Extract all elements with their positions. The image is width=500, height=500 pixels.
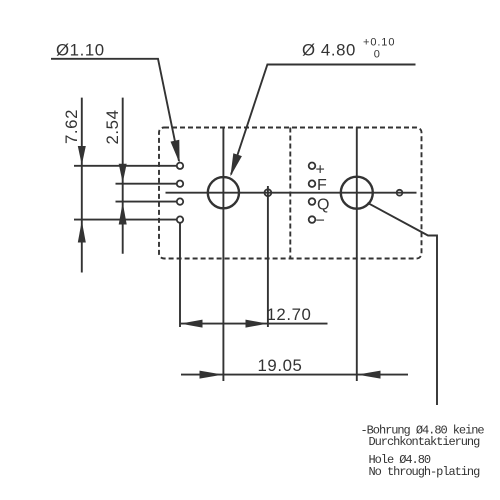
svg-text:F: F: [317, 177, 327, 194]
svg-text:19.05: 19.05: [258, 356, 303, 375]
pin hole 1 (1.10): [177, 163, 183, 169]
pin row line 1: [74, 165, 177, 167]
extension line from pin column: [179, 223, 181, 327]
pin hole 2 (1.10): [177, 181, 183, 187]
svg-text:Ø1.10: Ø1.10: [56, 40, 105, 59]
dimension line 12.70: [180, 323, 328, 325]
pin row line 3: [116, 201, 177, 203]
component body dashed outline: [159, 128, 422, 259]
dimension line 7.62 vertical: [81, 98, 83, 273]
right pin circle minus: [309, 216, 316, 223]
pin hole 4 (1.10): [177, 216, 183, 222]
horizontal centerline: [166, 192, 417, 194]
arrow up 7.62: [78, 221, 86, 243]
svg-text:Q: Q: [317, 197, 329, 214]
pin hole 3 (1.10): [177, 198, 183, 204]
arrow down 2.54: [119, 164, 127, 183]
hole 2 (diameter 4.80): [341, 177, 373, 209]
vertical centerline hole 1: [222, 127, 224, 381]
arrow left 12.70: [180, 320, 202, 328]
svg-text:+0.10: +0.10: [363, 36, 395, 48]
arrow down 7.62: [78, 146, 86, 165]
svg-text:12.70: 12.70: [267, 305, 312, 324]
hole 1 (diameter 4.80): [208, 177, 239, 208]
interior dashed divider line: [289, 128, 291, 259]
center pad vertical line: [267, 186, 269, 327]
svg-text:No through-plating: No through-plating: [369, 465, 481, 479]
right pin circle F: [309, 180, 316, 187]
svg-text:Durchkontaktierung: Durchkontaktierung: [369, 435, 481, 449]
arrow left-in 19.05: [357, 371, 380, 379]
svg-text:0: 0: [374, 48, 381, 60]
svg-text:7.62: 7.62: [62, 109, 81, 144]
dimension line 2.54 vertical: [122, 98, 124, 254]
leader to note text: [368, 203, 438, 405]
pin row line 4: [74, 219, 177, 221]
svg-text:Ø 4.80: Ø 4.80: [302, 41, 356, 60]
svg-text:2.54: 2.54: [103, 109, 122, 144]
pin row line 2: [116, 183, 177, 185]
leader line for 4.80 label: [231, 65, 416, 175]
svg-text:−: −: [316, 212, 325, 229]
right pin circle Q: [309, 198, 316, 205]
right small hole: [397, 190, 403, 196]
dimension line 19.05: [181, 374, 408, 376]
vertical centerline hole 2: [356, 127, 358, 381]
arrow right 12.70: [246, 320, 268, 328]
leader line for 1.10 label: [51, 59, 179, 161]
arrow tip 1.10 leader: [171, 140, 180, 163]
arrow up 2.54: [119, 202, 127, 224]
arrow tip 4.80 leader: [230, 153, 242, 176]
center pad circle: [265, 189, 272, 196]
arrow right-in 19.05: [200, 371, 223, 379]
right pin circle +: [309, 163, 316, 170]
